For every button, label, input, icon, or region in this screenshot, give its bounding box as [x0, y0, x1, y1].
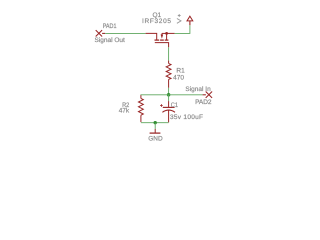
wire bottom rail — [141, 122, 169, 124]
wire node A to C1 — [168, 95, 170, 101]
wire node A to PAD2 — [169, 94, 203, 96]
wire R1 pin to node A — [168, 88, 170, 95]
pad PAD2 — [203, 92, 213, 98]
svg-text:47k: 47k — [119, 107, 130, 114]
svg-text:Signal Out: Signal Out — [95, 37, 126, 44]
svg-text:IRF3205: IRF3205 — [142, 18, 171, 25]
ground GND — [150, 129, 161, 133]
resistor R1 — [166, 63, 171, 79]
svg-text:PAD1: PAD1 — [103, 23, 117, 30]
resistor R1 top pin — [168, 61, 170, 64]
svg-text:PAD2: PAD2 — [195, 99, 212, 106]
wire GND stub — [154, 123, 156, 129]
label +V (rotated) — [177, 14, 181, 23]
wire Q1 gate to R1 — [168, 47, 170, 60]
resistor R2 top pin — [140, 95, 142, 98]
supply +V symbol — [187, 16, 193, 25]
junction dot at GND tap — [154, 121, 157, 124]
wire R2 bottom to bottom rail — [140, 115, 142, 122]
capacitor C1 — [160, 101, 175, 122]
wire PAD1 to Q1 drain — [105, 32, 145, 34]
transistor Q1 — [146, 33, 175, 47]
svg-text:Signal In: Signal In — [185, 86, 211, 93]
resistor R2 — [139, 98, 144, 115]
wire node A to R2 top — [141, 94, 169, 97]
svg-text:GND: GND — [148, 135, 163, 142]
pad PAD1 — [96, 30, 106, 36]
wire Q1 source to +V supply — [175, 25, 190, 33]
svg-text:C1: C1 — [171, 102, 179, 109]
node A junction dot — [167, 93, 171, 97]
svg-text:470: 470 — [173, 74, 184, 81]
svg-text:35v 100uF: 35v 100uF — [170, 114, 203, 121]
Q1 source junction dot — [165, 32, 168, 35]
Q1 body-diode arrow — [161, 35, 164, 39]
wire R1 to node A — [168, 79, 170, 87]
